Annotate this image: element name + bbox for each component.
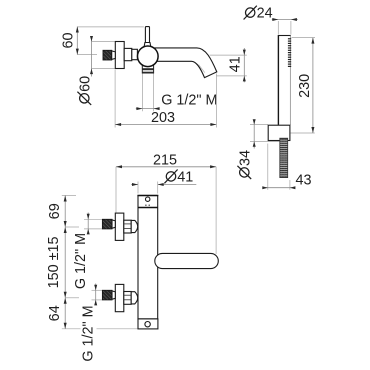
chain dimension stub at 69/150 boundary: [65, 226, 79, 228]
bottom connection: knob (hatched): [102, 290, 112, 300]
G dimension top line: [87, 213, 89, 235]
dimension 60 arrow down: [76, 49, 79, 55]
dimension 41 arrow down (above): [243, 50, 246, 56]
chain arrow top up: [64, 196, 67, 202]
dimension 41 line: [243, 48, 245, 82]
valve body circle: [138, 46, 159, 67]
dimension G 1/2 M extension line left: [141, 74, 143, 112]
top screw circle: [146, 197, 150, 201]
dimension D41 arrow left (right side): [158, 183, 164, 186]
svg-text:41: 41: [228, 56, 244, 72]
G dimension bottom: extension lines: [92, 289, 103, 291]
dimension 43 line: [263, 187, 293, 189]
aerator dark ring: [142, 68, 153, 70]
dimension D41 arrow right (left side): [132, 183, 138, 186]
wall union knob (threaded, hatched): [103, 50, 112, 60]
chain dimension extension stub top (69): [62, 194, 76, 196]
dimension D60 label: [77, 76, 93, 105]
dimension 203 arrow right: [210, 123, 216, 126]
wall bracket: [268, 125, 290, 140]
top connection: knob (hatched): [102, 219, 112, 229]
dimension 60 extension line top: [77, 26, 144, 28]
dimension 43 extension line right: [289, 180, 291, 190]
svg-text:215: 215: [153, 153, 177, 169]
cartridge cap line: [138, 207, 158, 209]
chain dimension stub at 150/64 boundary: [65, 297, 79, 299]
dimension D24 extension line right: [290, 21, 292, 35]
bottom connection: union nut: [124, 292, 131, 305]
svg-text:64: 64: [47, 305, 63, 321]
dimension 230 extension line top: [292, 37, 316, 39]
G dimension top: extension lines: [84, 218, 102, 220]
dimension D34 arrow up (below): [253, 142, 256, 147]
dimension 60 arrow up: [76, 27, 79, 33]
bottom connection: flange: [115, 284, 124, 311]
handle lever collar: [144, 43, 151, 48]
svg-text:69: 69: [47, 203, 63, 219]
svg-text:24: 24: [257, 6, 273, 22]
dimension 203 line: [115, 124, 216, 126]
dimension G 1/2 M arrow right: [136, 107, 142, 110]
connection nut: [124, 48, 132, 60]
handle knurl ticks: [288, 39, 291, 67]
dimension D34 extension line top: [250, 124, 268, 126]
bottom screw circle: [145, 322, 150, 327]
dimension D41 extension line right: [157, 182, 159, 194]
spout shading mark: [199, 65, 205, 73]
wall flange: [115, 42, 124, 69]
dimension 215 extension line right: [215, 167, 217, 254]
top connection: rounded adapter: [131, 220, 138, 232]
dimension 230 extension line bottom: [290, 132, 315, 134]
dimension D41 label: [164, 170, 177, 184]
dimension 60 extension line bottom: [77, 54, 97, 56]
spout body: [152, 48, 217, 78]
svg-text:G 1/2" M: G 1/2" M: [161, 93, 217, 109]
dimension D41 line left tail: [131, 184, 138, 186]
dimension D24 label: [244, 6, 257, 20]
svg-text:203: 203: [151, 110, 175, 126]
dimension D60 extension line bottom: [92, 68, 115, 70]
svg-text:60: 60: [77, 76, 93, 92]
dimension 60 line: [76, 27, 78, 55]
dimension 43 arrow left (right side): [290, 186, 296, 189]
dimension 215 arrow left: [116, 165, 122, 168]
dimension G 1/2 M line: [136, 108, 159, 110]
G dimension top arrows: [87, 214, 90, 235]
dimension D24 arrow right (left side): [272, 18, 278, 21]
dimension D60 arrow down (above): [90, 36, 93, 42]
aerator end dark line: [142, 72, 153, 73]
chain arrows at 150/64 boundary: [64, 292, 67, 304]
dimension 41 extension line bottom: [216, 75, 246, 77]
chain arrow bottom down: [64, 323, 67, 329]
dimension 43 arrow right (left side): [262, 186, 268, 189]
top connection: union nut grooves: [124, 223, 131, 225]
svg-text:230: 230: [297, 74, 313, 98]
dimension D34 line: [253, 119, 255, 148]
dimension D41 extension line left: [137, 182, 139, 194]
svg-text:60: 60: [60, 32, 76, 48]
dimension 215 line: [116, 166, 216, 168]
bottom connection: taper: [112, 291, 115, 299]
dimension D34 extension line bottom: [250, 141, 280, 143]
dimension 203 arrow left: [115, 123, 121, 126]
aerator body: [142, 62, 153, 73]
bottom cap: [138, 319, 158, 329]
svg-text:41: 41: [177, 169, 193, 185]
dimension G 1/2 M arrow left: [154, 107, 160, 110]
dimension D24 arrow left (right side): [291, 18, 297, 21]
svg-text:G 1/2" M: G 1/2" M: [81, 305, 97, 361]
G dimension bottom line: [95, 284, 97, 306]
shower hose (hatched): [280, 138, 288, 177]
mixer lever (stadium): [155, 253, 219, 268]
dimension 215 arrow right: [210, 165, 216, 168]
dimension 41 arrow up (below): [243, 76, 246, 82]
dimension D60 arrow up (below): [90, 69, 93, 75]
handle left edge: [277, 36, 279, 125]
dimension D34 label: [237, 150, 253, 179]
svg-text:34: 34: [237, 150, 253, 166]
chain dimension bottom extension (64): [62, 328, 81, 330]
top connection: taper: [112, 220, 115, 228]
dimension 215 extension line left: [115, 167, 117, 213]
top connection: union nut: [124, 220, 131, 233]
dimension 41 extension line top: [210, 54, 247, 56]
bottom connection: union nut grooves: [124, 294, 131, 296]
dimension D24 extension line left: [277, 21, 279, 35]
knob-to-flange taper: [112, 51, 116, 60]
svg-text:150 ±15: 150 ±15: [46, 236, 62, 288]
shower handle tube: [278, 36, 290, 125]
svg-text:G 1/2" M: G 1/2" M: [73, 233, 89, 289]
chain dimension line: [64, 196, 66, 329]
connection tube: [132, 49, 138, 59]
top detail dots: [145, 205, 146, 206]
mixer body: [138, 196, 158, 319]
dimension 230 arrow down: [311, 127, 314, 133]
chain arrows at 69/150 boundary: [64, 221, 67, 233]
svg-text:43: 43: [296, 173, 312, 189]
dimension 203 extension line right: [215, 74, 217, 128]
dimension G 1/2 M extension line right: [153, 74, 155, 112]
dimension D41 line right tail: [158, 184, 197, 186]
dimension 203 extension line left: [114, 70, 116, 128]
handle lever rod: [145, 27, 149, 43]
bottom connection: rounded adapter: [131, 292, 138, 304]
handle top edge: [278, 35, 291, 37]
dimension D34 arrow down (above): [253, 119, 256, 124]
body top edge bold: [137, 195, 158, 197]
dimension D60 line: [91, 36, 93, 77]
dimension D60 extension line top: [92, 41, 115, 43]
dimension 230 arrow up: [311, 38, 314, 44]
handle right edge: [289, 36, 291, 125]
dimension D24 line: [272, 19, 298, 21]
top connection: flange: [115, 213, 124, 240]
G dimension bottom arrows: [94, 285, 97, 306]
dimension 230 line: [312, 38, 314, 133]
dimension 43 extension line left: [267, 144, 269, 190]
